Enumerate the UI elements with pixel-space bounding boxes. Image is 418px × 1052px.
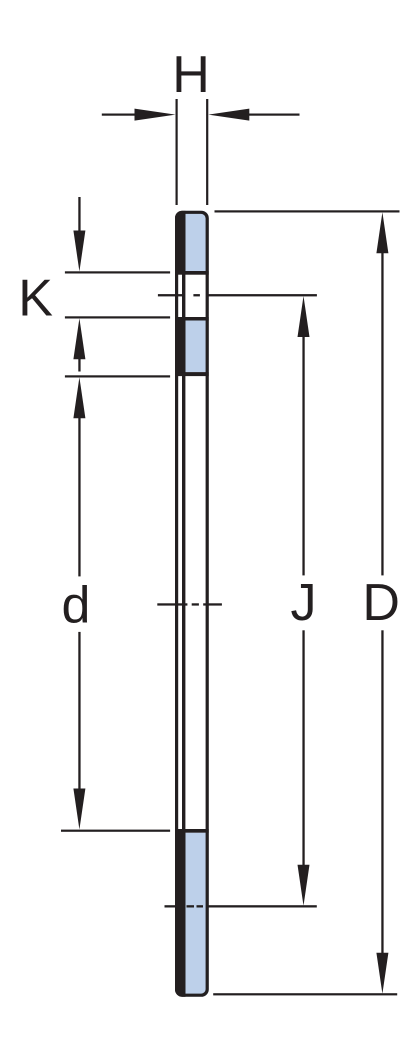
extension line D top [215, 210, 400, 212]
section boundary line under segment 2 [175, 372, 209, 376]
svg-text:K: K [18, 270, 53, 328]
svg-text:D: D [362, 574, 400, 632]
svg-text:J: J [291, 574, 317, 632]
section boundary line above segment 2 [175, 317, 209, 321]
extension line J bottom [207, 905, 317, 907]
section segment 1 thin-wall black band [175, 211, 186, 273]
extension line D bottom [213, 993, 397, 995]
svg-text:d: d [61, 577, 90, 635]
centerline middle (bore axis mark) [157, 603, 222, 605]
H dimension arrow right [208, 109, 299, 121]
extension line J top [206, 294, 317, 296]
washer inner-wall line L2 [182, 211, 185, 997]
d dimension line with arrows [73, 377, 85, 829]
J dimension line with arrows [298, 296, 310, 906]
washer body white fill [175, 211, 209, 997]
extension line K top [65, 271, 170, 273]
section segment 2 blue fill [186, 321, 209, 373]
extension line d top [65, 375, 170, 377]
section segment 1 blue fill [186, 211, 209, 271]
section segment 3 thin-wall black band [175, 830, 186, 997]
H extension line left [176, 99, 178, 205]
section segment 2 thin-wall black band [175, 318, 186, 374]
H extension line right [206, 99, 208, 205]
K dimension arrow bottom (pointing up) [73, 318, 85, 371]
extension line d bottom [61, 830, 170, 832]
section boundary line above segment 3 [175, 829, 209, 833]
svg-text:H: H [172, 46, 210, 104]
section boundary line under segment 1 [175, 271, 209, 275]
K dimension arrow top (pointing down) [73, 197, 85, 272]
section segment 3 blue fill [186, 833, 209, 997]
H dimension arrow left [102, 109, 176, 121]
extension line K bottom [65, 316, 170, 318]
centerline bottom (through lower section) [165, 905, 204, 907]
washer outline [177, 212, 208, 995]
D dimension line with arrows [376, 212, 388, 994]
centerline top (through hole K) [158, 294, 200, 296]
